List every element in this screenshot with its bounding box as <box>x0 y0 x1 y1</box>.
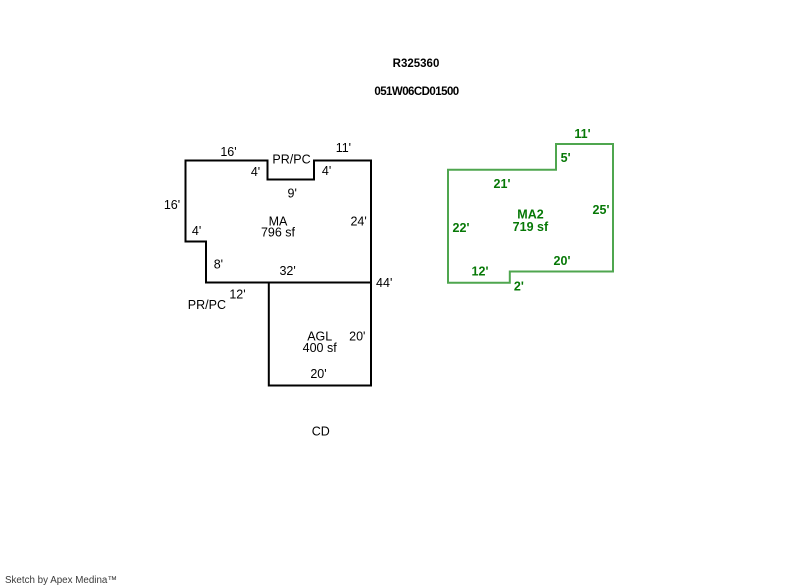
svg-text:4': 4' <box>192 224 201 238</box>
svg-text:12': 12' <box>472 265 489 279</box>
svg-text:25': 25' <box>593 203 610 217</box>
svg-text:051W06CD01500: 051W06CD01500 <box>374 86 458 98</box>
svg-text:22': 22' <box>453 221 470 235</box>
svg-text:20': 20' <box>310 367 326 381</box>
svg-text:PR/PC: PR/PC <box>272 152 310 166</box>
svg-text:16': 16' <box>164 198 180 212</box>
svg-text:8': 8' <box>214 257 223 271</box>
svg-text:11': 11' <box>336 141 351 155</box>
svg-text:4': 4' <box>322 164 331 178</box>
svg-text:R325360: R325360 <box>393 58 440 70</box>
svg-text:20': 20' <box>349 329 365 343</box>
svg-text:PR/PC: PR/PC <box>188 298 226 312</box>
svg-text:16': 16' <box>220 145 236 159</box>
building outline AGL (garage, black) <box>269 283 371 386</box>
svg-text:44': 44' <box>376 276 392 290</box>
svg-text:719 sf: 719 sf <box>513 220 549 234</box>
svg-text:4': 4' <box>251 165 260 179</box>
svg-text:32': 32' <box>279 264 295 278</box>
svg-text:MA2: MA2 <box>517 207 543 221</box>
svg-text:CD: CD <box>312 425 330 439</box>
svg-text:20': 20' <box>554 254 571 268</box>
svg-text:9': 9' <box>288 187 297 201</box>
svg-text:24': 24' <box>350 215 366 229</box>
svg-text:11': 11' <box>574 127 590 141</box>
svg-text:21': 21' <box>494 177 511 191</box>
svg-text:Sketch by Apex Medina™: Sketch by Apex Medina™ <box>5 575 117 586</box>
building outline MA (main area, black) <box>186 161 372 283</box>
svg-text:2': 2' <box>514 279 524 293</box>
svg-text:5': 5' <box>561 151 571 165</box>
svg-text:12': 12' <box>229 287 245 301</box>
svg-text:400 sf: 400 sf <box>303 341 338 355</box>
building outline MA2 (green) <box>448 144 613 283</box>
svg-text:796 sf: 796 sf <box>261 225 296 239</box>
